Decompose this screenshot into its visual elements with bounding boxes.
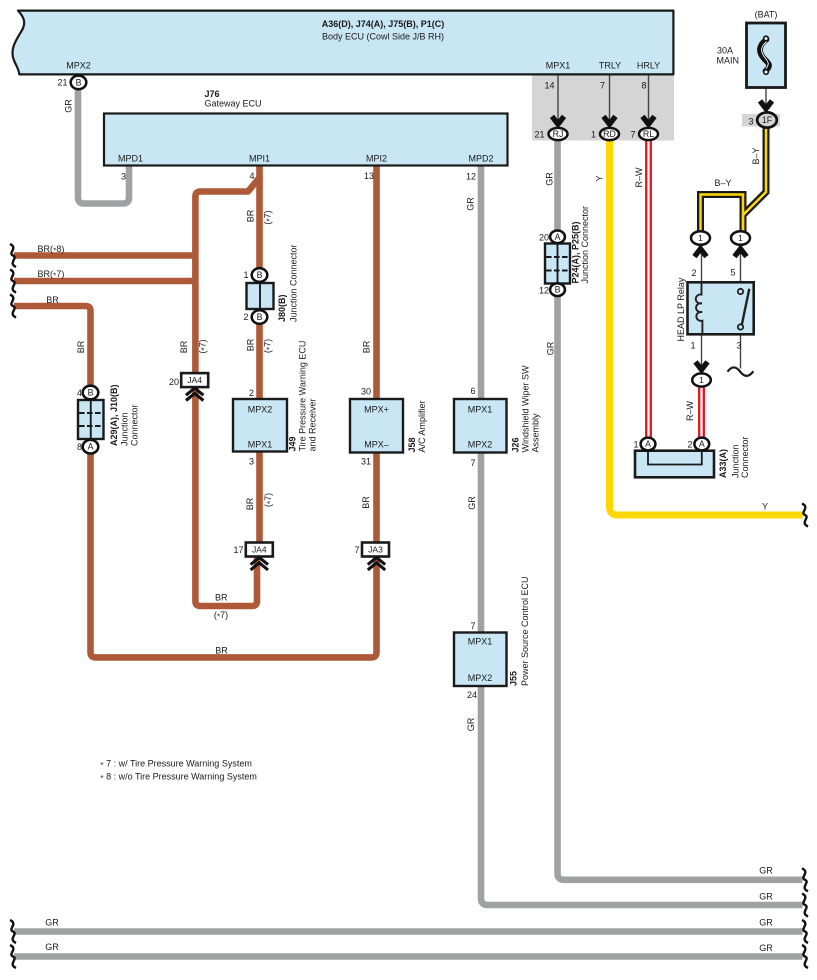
arrow down into RL bbox=[643, 116, 655, 124]
arrow up into B-Y circle left bbox=[695, 249, 707, 257]
svg-text:8: 8 bbox=[641, 81, 646, 91]
svg-text:1: 1 bbox=[591, 129, 596, 139]
svg-text:GR: GR bbox=[545, 172, 555, 186]
svg-text:MPX1: MPX1 bbox=[468, 637, 493, 647]
svg-text:2: 2 bbox=[243, 312, 248, 322]
svg-text:21: 21 bbox=[534, 129, 544, 139]
svg-text:Tire Pressure Warning ECU: Tire Pressure Warning ECU bbox=[298, 341, 308, 452]
svg-text:(*7): (*7) bbox=[263, 210, 275, 224]
svg-text:24: 24 bbox=[467, 690, 477, 700]
J49 Tire Pressure Warning ECU box bbox=[233, 399, 287, 452]
svg-text:MPI2: MPI2 bbox=[366, 154, 387, 164]
J76 Gateway ECU box bbox=[104, 114, 508, 166]
HEAD LP Relay box bbox=[688, 282, 754, 334]
connector shade under Body ECU pins bbox=[532, 74, 674, 141]
wire BR J49 pin3 to JA4-17 bbox=[256, 452, 263, 543]
wire BR MPI2 pin13 to J58 pin30 bbox=[373, 166, 380, 400]
svg-text:B: B bbox=[257, 270, 263, 280]
wire BR J58 pin31 to JA3 bbox=[373, 452, 380, 543]
svg-text:B: B bbox=[555, 285, 561, 295]
svg-text:3: 3 bbox=[748, 117, 753, 127]
svg-text:RJ: RJ bbox=[553, 129, 564, 139]
svg-text:A: A bbox=[645, 439, 651, 449]
open end squiggle under relay pin3 bbox=[728, 367, 754, 375]
svg-text:(BAT): (BAT) bbox=[755, 10, 778, 20]
svg-text:12: 12 bbox=[539, 286, 549, 296]
svg-text:3: 3 bbox=[736, 341, 741, 351]
svg-text:20: 20 bbox=[539, 232, 549, 242]
thin wire MPX1 to RJ bbox=[557, 75, 559, 128]
oval 1 relay pin1 bbox=[692, 373, 711, 386]
svg-text:17: 17 bbox=[233, 545, 243, 555]
fuse element bbox=[760, 40, 769, 72]
svg-text:BR: BR bbox=[179, 340, 189, 353]
svg-text:JA3: JA3 bbox=[368, 545, 383, 555]
svg-text:* 7 : w/ Tire Pressure Warning: * 7 : w/ Tire Pressure Warning System bbox=[100, 759, 252, 771]
break squiggle GR line3 right bbox=[802, 920, 808, 943]
arrow down into relay pin1 oval bbox=[696, 362, 708, 370]
svg-text:MPD2: MPD2 bbox=[468, 154, 493, 164]
svg-text:MPI1: MPI1 bbox=[249, 154, 270, 164]
svg-text:3: 3 bbox=[249, 457, 254, 467]
svg-text:Connector: Connector bbox=[740, 436, 750, 478]
svg-text:Junction: Junction bbox=[120, 412, 130, 446]
svg-text:HRLY: HRLY bbox=[637, 61, 660, 71]
svg-text:J80(B): J80(B) bbox=[277, 294, 287, 322]
svg-text:MPX+: MPX+ bbox=[364, 405, 389, 415]
pin circles A33 bbox=[641, 438, 656, 451]
JA4 20 box bbox=[181, 373, 208, 387]
wire GR full-width line 3 bbox=[14, 928, 803, 935]
svg-text:8: 8 bbox=[77, 442, 82, 452]
svg-text:JA4: JA4 bbox=[187, 375, 202, 385]
wire Y from RD down then right bbox=[610, 139, 803, 515]
svg-text:7: 7 bbox=[470, 458, 475, 468]
svg-text:BR: BR bbox=[245, 497, 255, 510]
svg-text:7: 7 bbox=[354, 545, 359, 555]
svg-text:5: 5 bbox=[730, 268, 735, 278]
pin circles J80 bbox=[252, 268, 268, 282]
svg-text:GR: GR bbox=[546, 341, 556, 355]
svg-text:Connector: Connector bbox=[130, 404, 140, 446]
svg-text:Gateway ECU: Gateway ECU bbox=[205, 98, 262, 108]
wire B-Y from 1F to relay circles bbox=[743, 127, 766, 234]
break squiggle GR line4 left bbox=[10, 945, 16, 968]
svg-text:14: 14 bbox=[544, 81, 554, 91]
svg-text:A: A bbox=[88, 442, 94, 452]
break squiggle BR bbox=[10, 295, 16, 318]
svg-text:7: 7 bbox=[600, 81, 605, 91]
svg-text:1: 1 bbox=[738, 233, 743, 243]
svg-text:TRLY: TRLY bbox=[599, 61, 621, 71]
svg-text:7: 7 bbox=[470, 621, 475, 631]
svg-text:6: 6 bbox=[470, 386, 475, 396]
pin circle B21 bbox=[71, 76, 87, 90]
svg-text:2: 2 bbox=[249, 388, 254, 398]
svg-text:J49: J49 bbox=[288, 436, 298, 451]
oval 1 left B-Y bbox=[691, 231, 710, 245]
wire BR from break to A29 pin4 bbox=[14, 306, 91, 387]
svg-text:(*7): (*7) bbox=[263, 493, 275, 507]
svg-text:20: 20 bbox=[169, 377, 179, 387]
svg-text:BR: BR bbox=[215, 592, 228, 602]
arrow down into RD bbox=[604, 116, 616, 124]
svg-text:GR: GR bbox=[466, 197, 476, 211]
svg-text:MPX1: MPX1 bbox=[248, 440, 273, 450]
JA3 7 chevron bbox=[368, 558, 385, 570]
svg-text:MPX2: MPX2 bbox=[468, 673, 493, 683]
J58 A/C Amplifier box bbox=[350, 399, 403, 453]
pin circles A29 bbox=[83, 386, 99, 400]
wire BR J80 to J49 pin2 bbox=[256, 323, 263, 399]
svg-text:BR(*8): BR(*8) bbox=[38, 244, 65, 256]
svg-text:GR: GR bbox=[45, 942, 59, 952]
wire GR full-width line 4 bbox=[14, 953, 803, 960]
svg-text:A: A bbox=[555, 232, 561, 242]
thin wire HRLY to RL bbox=[648, 75, 650, 128]
svg-text:A29(A), J10(B): A29(A), J10(B) bbox=[109, 384, 119, 446]
thin wire fuse to 1F bbox=[765, 89, 767, 113]
svg-text:Junction Connector: Junction Connector bbox=[289, 244, 299, 322]
svg-text:3: 3 bbox=[121, 172, 126, 182]
oval RJ bbox=[549, 128, 568, 140]
thin wire relay pin1 down bbox=[701, 334, 703, 368]
svg-text:RL: RL bbox=[643, 129, 654, 139]
break squiggle GR line3 left bbox=[10, 920, 16, 943]
A33 internal bus bbox=[648, 452, 702, 465]
J26 Windshield Wiper SW box bbox=[454, 399, 507, 453]
svg-text:R–W: R–W bbox=[685, 400, 695, 421]
svg-text:GR: GR bbox=[64, 99, 74, 113]
svg-text:1: 1 bbox=[243, 270, 248, 280]
svg-text:MPX2: MPX2 bbox=[248, 405, 273, 415]
svg-text:A33(A): A33(A) bbox=[718, 449, 728, 478]
svg-text:Assembly: Assembly bbox=[530, 413, 540, 453]
svg-text:BR: BR bbox=[362, 340, 372, 353]
wire BR U-loop JA3 to A29 pin8 bbox=[91, 453, 377, 657]
svg-text:MPX1: MPX1 bbox=[468, 405, 493, 415]
svg-text:13: 13 bbox=[364, 171, 374, 181]
svg-text:B: B bbox=[76, 78, 82, 88]
svg-text:B: B bbox=[257, 312, 263, 322]
svg-text:(*7): (*7) bbox=[214, 610, 228, 622]
JA4 17 box bbox=[246, 543, 273, 557]
svg-text:J26: J26 bbox=[511, 437, 521, 452]
svg-text:A36(D), J74(A), J75(B), P1(C): A36(D), J74(A), J75(B), P1(C) bbox=[322, 19, 445, 29]
wire GR J55 pin24 down then right bbox=[481, 686, 803, 906]
svg-text:Body ECU (Cowl Side J/B RH): Body ECU (Cowl Side J/B RH) bbox=[322, 31, 444, 41]
A29(A),J10(B) junction connector box bbox=[78, 400, 104, 439]
thin wire TRLY to RD bbox=[609, 75, 611, 128]
svg-text:2: 2 bbox=[691, 268, 696, 278]
svg-text:BR: BR bbox=[76, 340, 86, 353]
svg-text:BR: BR bbox=[246, 209, 256, 222]
svg-text:(*7): (*7) bbox=[263, 339, 275, 353]
svg-text:J55: J55 bbox=[509, 671, 519, 686]
svg-text:1: 1 bbox=[699, 375, 704, 385]
arrow up into B-Y circle right bbox=[735, 249, 747, 257]
svg-text:BR: BR bbox=[215, 646, 228, 656]
wire BR MPI1 pin4 down to J80 bbox=[256, 166, 263, 270]
svg-text:MPX1: MPX1 bbox=[546, 61, 571, 71]
break squiggle Y right bbox=[802, 504, 808, 527]
relay coil bbox=[696, 283, 703, 335]
svg-text:1: 1 bbox=[698, 233, 703, 243]
wire BR(*7) from break bbox=[14, 278, 199, 285]
svg-text:1: 1 bbox=[690, 341, 695, 351]
wire R-W relay pin1 to A33 pin2 bbox=[698, 387, 700, 438]
JA4 17 chevron bbox=[251, 558, 268, 570]
svg-text:BR: BR bbox=[361, 496, 371, 509]
svg-text:MPX2: MPX2 bbox=[66, 60, 91, 70]
svg-text:1: 1 bbox=[633, 440, 638, 450]
oval 1 right B-Y bbox=[731, 231, 750, 245]
wire GR from RJ21 down through P24 then right bbox=[558, 139, 803, 880]
svg-text:GR: GR bbox=[45, 918, 59, 928]
A33(A) junction connector box bbox=[635, 451, 714, 478]
svg-text:* 8 : w/o Tire Pressure Warnin: * 8 : w/o Tire Pressure Warning System bbox=[100, 771, 257, 783]
svg-text:MPD1: MPD1 bbox=[118, 154, 143, 164]
svg-text:GR: GR bbox=[759, 943, 773, 953]
svg-text:BR(*7): BR(*7) bbox=[38, 269, 65, 281]
Body ECU box A36(D) J74(A) J75(B) P1(C) bbox=[12, 11, 673, 75]
svg-text:Windshield Wiper SW: Windshield Wiper SW bbox=[521, 365, 531, 453]
svg-text:Junction Connector: Junction Connector bbox=[580, 206, 590, 284]
svg-text:HEAD LP Relay: HEAD LP Relay bbox=[676, 277, 686, 341]
pin circles P24 bbox=[550, 231, 565, 244]
svg-text:21: 21 bbox=[57, 78, 67, 88]
thin wire relay pin5 bbox=[740, 246, 742, 283]
P24(A),P25(B) junction connector box bbox=[545, 244, 570, 284]
svg-text:A: A bbox=[699, 439, 705, 449]
break squiggle GR line1 right bbox=[802, 868, 808, 891]
svg-text:B–Y: B–Y bbox=[751, 147, 761, 164]
break squiggle BR(*8) bbox=[10, 244, 16, 267]
svg-text:1F: 1F bbox=[762, 115, 773, 125]
svg-text:J58: J58 bbox=[407, 437, 417, 452]
svg-text:GR: GR bbox=[466, 717, 476, 731]
svg-text:4: 4 bbox=[77, 388, 82, 398]
svg-text:B–Y: B–Y bbox=[714, 178, 731, 188]
wire BR U-loop JA4-20 to JA4-17 bbox=[195, 388, 257, 607]
svg-text:A/C Amplifier: A/C Amplifier bbox=[417, 400, 427, 452]
oval RD bbox=[600, 128, 619, 140]
svg-text:30: 30 bbox=[361, 387, 371, 397]
svg-text:Y: Y bbox=[762, 502, 768, 512]
svg-text:MPX–: MPX– bbox=[364, 440, 389, 450]
svg-text:B: B bbox=[88, 388, 94, 398]
svg-text:GR: GR bbox=[759, 892, 773, 902]
J80(B) junction connector box bbox=[247, 283, 274, 309]
svg-text:RD: RD bbox=[603, 129, 616, 139]
break squiggle BR(*7) bbox=[10, 270, 16, 293]
svg-text:P24(A), P25(B): P24(A), P25(B) bbox=[571, 221, 581, 283]
oval 1F bbox=[757, 112, 777, 127]
arrow down into 1F bbox=[760, 101, 772, 109]
svg-text:GR: GR bbox=[467, 496, 477, 510]
svg-text:J76: J76 bbox=[205, 89, 220, 99]
relay switch bbox=[742, 289, 750, 325]
thin wire relay pin3 down bbox=[740, 334, 742, 369]
JA4 20 chevron bbox=[186, 388, 203, 400]
svg-text:BR: BR bbox=[246, 338, 256, 351]
svg-text:GR: GR bbox=[759, 866, 773, 876]
JA3 7 box bbox=[362, 543, 389, 557]
J55 Power Source Control ECU box bbox=[454, 633, 507, 687]
break squiggle GR line4 right bbox=[802, 945, 808, 968]
wire BR branch from pin4 to left vertical bbox=[195, 176, 260, 373]
svg-text:7: 7 bbox=[630, 129, 635, 139]
svg-text:4: 4 bbox=[249, 171, 254, 181]
svg-text:(*7): (*7) bbox=[198, 339, 210, 353]
svg-text:12: 12 bbox=[466, 172, 476, 182]
svg-text:R–W: R–W bbox=[634, 167, 644, 188]
thin wire relay pin2 bbox=[701, 246, 703, 283]
wire BR(*8) from break bbox=[14, 252, 199, 259]
wire GR from B21 to MPD1 pin3 bbox=[78, 86, 129, 204]
svg-text:Y: Y bbox=[595, 175, 605, 181]
svg-text:MAIN: MAIN bbox=[717, 56, 740, 66]
svg-text:GR: GR bbox=[759, 918, 773, 928]
wire GR J26 pin7 to J55 pin7 bbox=[478, 452, 485, 633]
svg-text:BR: BR bbox=[46, 295, 59, 305]
svg-text:MPX2: MPX2 bbox=[468, 440, 493, 450]
svg-text:Power Source Control ECU: Power Source Control ECU bbox=[520, 576, 530, 686]
svg-text:Junction: Junction bbox=[731, 444, 741, 478]
svg-text:30A: 30A bbox=[717, 46, 733, 56]
arrow down into RJ bbox=[552, 116, 564, 124]
fuse 30A MAIN box bbox=[747, 23, 786, 88]
wire GR MPD2 pin12 down to J26 bbox=[478, 165, 485, 400]
wire R-W from RL to A33 pin1 bbox=[645, 139, 647, 438]
shade behind 1F bbox=[742, 114, 780, 127]
svg-text:2: 2 bbox=[687, 440, 692, 450]
break squiggle GR line2 right bbox=[802, 894, 808, 917]
svg-text:and Receiver: and Receiver bbox=[308, 398, 318, 451]
oval RL bbox=[639, 128, 658, 140]
svg-text:JA4: JA4 bbox=[252, 545, 267, 555]
svg-text:31: 31 bbox=[361, 457, 371, 467]
